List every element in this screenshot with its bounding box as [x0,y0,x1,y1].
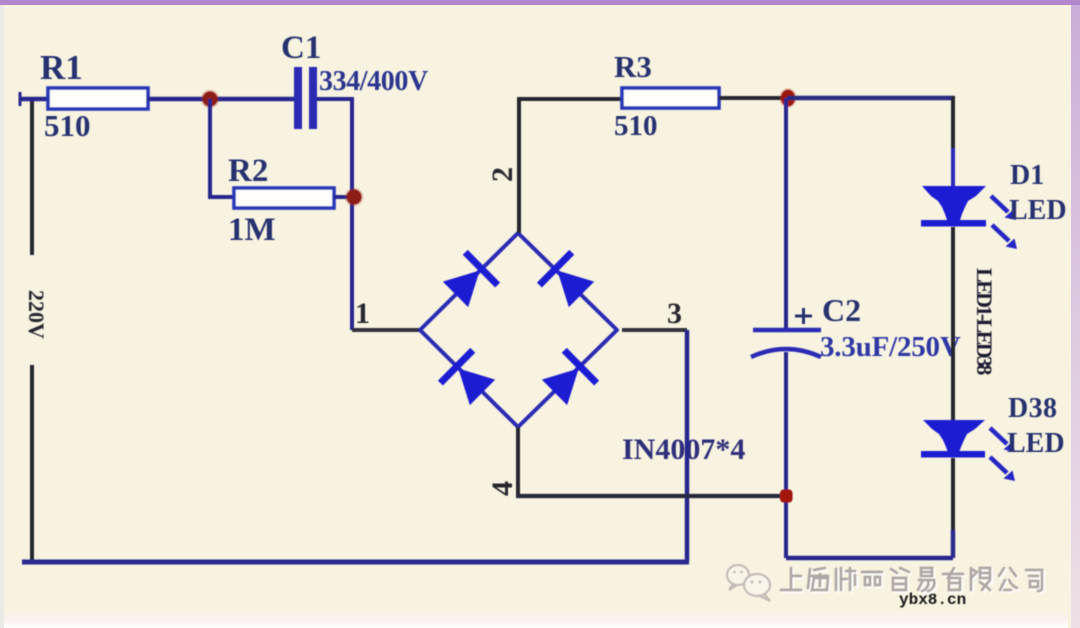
junction C [779,88,796,108]
wire junction C to LED chain corner [787,96,955,101]
wire bottom right segment [786,556,953,561]
capacitor C2 top plate [753,328,821,333]
svg-text:1: 1 [355,297,370,330]
net label 220V [24,290,49,339]
label R1 [40,48,83,87]
LED D1 arrows [991,196,1017,249]
node label 2 [486,167,519,182]
capacitor C1 [294,67,317,129]
label C2 [822,292,861,328]
svg-text:D38: D38 [1008,393,1057,424]
wire left vertical 220V upper [30,99,34,255]
svg-text:C2: C2 [822,292,861,328]
wire R3 to junction C [719,96,787,100]
diode bridge bottom-right [538,348,599,409]
node label 1 [355,297,370,330]
node label 4 [486,481,519,496]
svg-text:R2: R2 [228,153,268,189]
capacitor C2 bottom plate [751,349,821,357]
label D38 [1008,393,1057,424]
wire D38 bottom corner [951,530,956,558]
resistor R3 [622,88,719,108]
LED D1 [921,186,986,227]
label R3 [614,49,652,84]
wire R1 to junction A to C1 [148,97,294,102]
diode bridge top-left [439,250,500,311]
wire C1 right to vertical [317,99,352,330]
wire node 3 vertical to bottom rail [685,330,690,562]
diode bridge top-right [537,250,598,311]
wire LED chain top vertical [951,96,955,150]
wire R2 right lead [334,195,352,199]
svg-text:ybx8.cn: ybx8.cn [899,591,966,609]
net label LED1-LED38 [972,268,997,375]
wire node 1 horizontal [352,328,420,332]
svg-text:R3: R3 [614,49,652,84]
svg-text:IN4007*4: IN4007*4 [622,433,745,466]
wire node 3 horizontal [622,328,687,332]
wire bottom rail [22,560,689,565]
wire R1 left lead with terminal tick [19,92,48,106]
label R2 [228,153,268,189]
LED D38 arrows [990,428,1015,481]
svg-text:C1: C1 [281,30,321,66]
svg-text:334/400V: 334/400V [319,66,428,97]
value 510 (R3) [614,110,658,142]
svg-text:220V: 220V [24,290,49,339]
wire LED chain into D1 [951,148,955,188]
label D1 [1010,160,1044,191]
wire node 2 to R3 [519,99,622,233]
svg-text:R1: R1 [40,48,83,87]
label C1 [281,30,321,66]
LED D38 [921,420,985,458]
junction D [780,490,793,503]
value 334/400V [319,66,428,97]
label LED (D1) [1009,195,1067,226]
svg-text:510: 510 [44,108,91,143]
wire between D1 and D38 [951,227,955,420]
value 1M [228,212,276,248]
wire node 4 horizontal to junction D [516,494,783,498]
svg-text:3.3uF/250V: 3.3uF/250V [820,331,961,363]
svg-text:LED1-LED38: LED1-LED38 [972,268,997,375]
wire left vertical 220V lower [30,365,34,560]
capacitor C2 plus sign [795,308,812,324]
svg-text:1M: 1M [228,212,276,248]
node label 3 [667,297,682,330]
svg-text:4: 4 [486,481,519,496]
svg-text:D1: D1 [1010,160,1044,191]
bridge diamond edges [420,233,617,427]
svg-text:LED: LED [1009,195,1067,226]
junction B [345,188,363,206]
svg-text:LED: LED [1007,428,1065,459]
value 510 (R1) [44,108,91,143]
svg-text:2: 2 [486,167,519,182]
wire C2 top vertical [784,98,788,330]
wire C2 bottom vertical to junction D [784,352,788,558]
wire D38 to bottom [951,458,955,532]
diode bridge bottom-left [438,348,499,409]
resistor R1 [48,88,148,109]
wire node 4 vertical [516,427,520,496]
junction A [201,90,219,108]
value 3.3uF/250V [820,331,961,363]
resistor R2 [234,188,334,208]
svg-text:3: 3 [667,297,682,330]
svg-text:510: 510 [614,110,658,142]
value IN4007*4 [622,433,745,466]
wire junction A down to R2 [210,99,234,197]
label LED (D38) [1007,428,1065,459]
